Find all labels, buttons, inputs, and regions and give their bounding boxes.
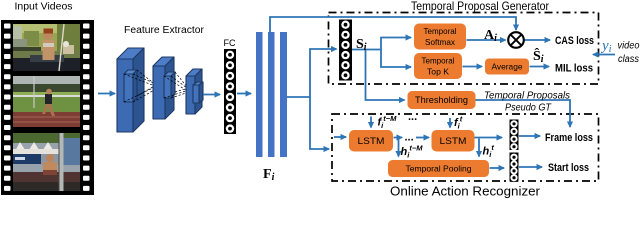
svg-text:Pseudo GT: Pseudo GT (505, 102, 552, 114)
svg-text:class: class (618, 54, 639, 65)
svg-text:FC: FC (224, 38, 236, 48)
svg-text:video: video (618, 41, 640, 52)
svg-text:Online Action Recognizer: Online Action Recognizer (390, 185, 540, 199)
svg-text:LSTM: LSTM (358, 136, 385, 147)
svg-text:Feature Extractor: Feature Extractor (124, 25, 205, 36)
svg-text:Input Videos: Input Videos (15, 1, 73, 13)
svg-text:Average: Average (492, 62, 523, 72)
svg-text:Temporal Proposals: Temporal Proposals (484, 90, 571, 102)
svg-text:MIL loss: MIL loss (555, 63, 593, 75)
svg-text:Softmax: Softmax (425, 37, 456, 47)
svg-text:Top K: Top K (427, 67, 449, 77)
svg-text:...: ... (408, 111, 417, 123)
svg-text:Temporal Pooling: Temporal Pooling (406, 164, 472, 174)
svg-text:Temporal Proposal Generator: Temporal Proposal Generator (411, 0, 549, 13)
svg-text:Start loss: Start loss (548, 162, 589, 174)
svg-text:CAS loss: CAS loss (555, 35, 594, 47)
svg-text:Temporal: Temporal (424, 26, 457, 36)
svg-text:...: ... (405, 132, 414, 144)
svg-text:Thresholding: Thresholding (415, 95, 468, 105)
svg-text:Temporal: Temporal (422, 56, 455, 66)
svg-text:LSTM: LSTM (440, 136, 467, 147)
svg-text:Frame loss: Frame loss (545, 132, 593, 144)
